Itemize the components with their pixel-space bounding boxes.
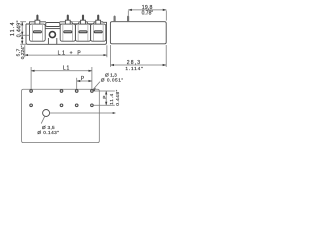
side view pin row 2 [127,16,128,22]
svg-text:0.224": 0.224" [20,45,26,59]
clamp unit 2 solder pin [65,15,70,24]
clamp unit 3 solder pin [81,15,86,24]
clamp unit 3 screw slot [79,30,88,33]
leader to 3.5 hole [41,116,45,123]
dim P right-side extensions [94,91,115,105]
svg-text:L1: L1 [63,66,70,72]
clamp unit 1 screw slot [33,30,42,33]
svg-text:Ø 0.143": Ø 0.143" [37,130,59,135]
svg-text:11.4: 11.4 [109,93,115,105]
svg-text:11.4: 11.4 [10,21,16,36]
dim 19.8 line [128,9,166,11]
clamp unit 4 body (cut at right) [91,24,106,41]
side view body [110,22,166,44]
svg-text:28,3: 28,3 [127,60,142,66]
dim L1 line [31,70,92,72]
dim L1/P shared right extension [91,67,93,90]
clamp unit 2 body [60,24,75,41]
hump rect above flange [46,23,60,27]
dim 11.4 vertical line [21,22,23,36]
dim L1 left extension down to hole [30,67,32,90]
svg-text:L1 + P: L1 + P [58,50,83,56]
drill holes row 2 [30,104,33,107]
drill holes row 1 [30,90,33,93]
svg-text:0.448": 0.448" [115,89,121,105]
flange sides [48,38,56,44]
clamp unit 1 solder pin [35,15,40,24]
svg-text:Ø 0.051": Ø 0.051" [101,77,124,83]
leader to 1.3 hole [93,82,100,90]
clamp unit 1 body [30,24,46,41]
dim P left extension [76,78,78,90]
svg-text:P: P [102,95,108,98]
svg-text:1.114": 1.114" [125,66,143,72]
mounting hole 3.5 [43,110,50,117]
front view housing top edge [26,22,103,24]
clamp unit 3 body [75,24,90,41]
dim P right-side vertical line [105,91,107,105]
dim L1+P extensions [25,45,107,57]
clamp unit 2 screw slot [63,30,72,33]
dim 28.3 left extension [111,45,167,67]
clamp unit 4 screw slot [94,30,103,33]
drill plan rectangle [22,89,100,142]
dim 19.8 extensions [128,11,166,21]
dim P top line [77,80,92,82]
mounting hole axis line [50,112,114,114]
svg-text:0.449": 0.449" [17,20,23,37]
dim 28.3 line [111,64,167,66]
top edge dips between units [72,22,94,24]
dim 11.4 extension ticks left [20,22,29,45]
svg-text:0.78": 0.78" [142,10,154,16]
front view housing [26,22,107,45]
dim L1+P line [25,54,107,56]
clamp unit 4 solder pin [96,15,101,24]
flange screw circle [49,32,55,38]
side view pin row 1 [114,16,115,22]
dim 5.7 vertical line [21,35,23,44]
